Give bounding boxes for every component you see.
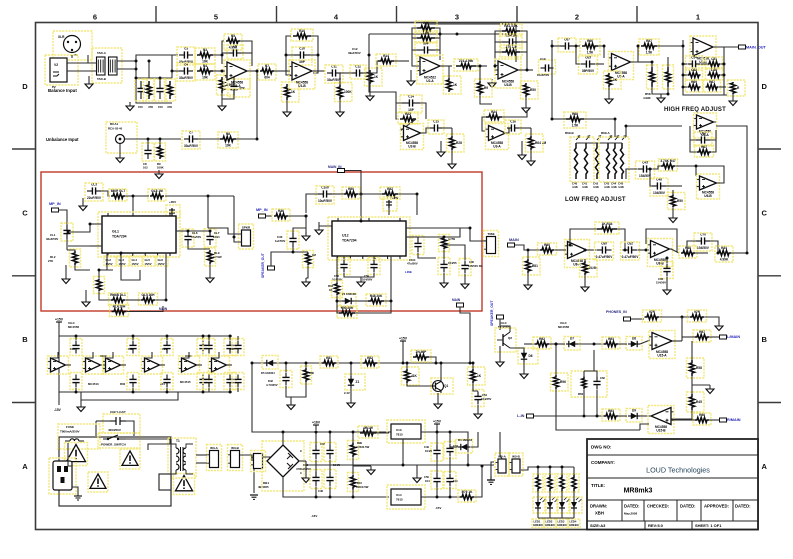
wire xyxy=(241,52,252,54)
ground xyxy=(663,286,671,295)
wire xyxy=(671,419,682,421)
wire xyxy=(172,70,179,72)
wire xyxy=(716,126,747,253)
wire xyxy=(671,249,679,253)
svg-text:R81: R81 xyxy=(532,264,538,268)
diode D16 xyxy=(626,409,642,423)
resistor R11 xyxy=(282,82,300,102)
wire (rail top) xyxy=(59,327,232,336)
node SPK1 xyxy=(268,266,275,270)
svg-text:LED3: LED3 xyxy=(558,520,565,524)
svg-text:C21: C21 xyxy=(162,347,167,351)
svg-text:HIGH FREQ ADJUST: HIGH FREQ ADJUST xyxy=(664,107,726,113)
wire xyxy=(440,141,442,148)
svg-text:R/MAIN: R/MAIN xyxy=(727,418,741,422)
wire xyxy=(638,249,649,251)
wire xyxy=(165,196,208,228)
wire xyxy=(701,63,707,65)
wire xyxy=(731,252,747,254)
svg-text:MC4515: MC4515 xyxy=(180,380,191,384)
wire xyxy=(368,34,370,70)
wire xyxy=(476,65,487,67)
ground xyxy=(434,400,442,409)
wire xyxy=(352,489,354,497)
svg-text:RCA-03-40: RCA-03-40 xyxy=(108,127,123,131)
ground xyxy=(581,283,589,292)
wire xyxy=(350,388,352,399)
node PHONES_IN label xyxy=(606,310,627,314)
svg-text:150: 150 xyxy=(158,105,163,109)
label C28 xyxy=(213,231,220,239)
svg-text:33uF/50V: 33uF/50V xyxy=(46,237,58,241)
wire xyxy=(166,336,168,340)
wire xyxy=(82,198,84,202)
svg-text:1: 1 xyxy=(696,13,700,22)
wire xyxy=(75,336,77,340)
wire xyxy=(182,352,189,358)
op-amp U6-B xyxy=(697,174,720,199)
junction dots xyxy=(292,193,472,303)
bridge rectifier DB1 xyxy=(258,441,304,491)
svg-text:R28: R28 xyxy=(456,141,462,145)
svg-text:47K: 47K xyxy=(167,105,172,109)
wire xyxy=(443,250,445,259)
svg-text:400/250V: 400/250V xyxy=(108,428,121,432)
wire xyxy=(171,55,173,78)
node SPEAKER_OUT vertical xyxy=(490,300,494,326)
earth ground xyxy=(250,495,258,499)
svg-text:4.99K: 4.99K xyxy=(720,258,729,262)
svg-text:104/50V: 104/50V xyxy=(653,191,666,195)
wire xyxy=(87,55,89,63)
transformer shield xyxy=(159,474,171,490)
diode D12 xyxy=(456,440,473,454)
wire xyxy=(638,61,652,63)
wire xyxy=(145,352,152,358)
svg-text:-15V: -15V xyxy=(435,506,441,510)
wire xyxy=(519,69,533,71)
label cap row values xyxy=(70,347,235,351)
wire xyxy=(345,171,361,222)
svg-text:C: C xyxy=(762,209,768,218)
wire xyxy=(336,256,338,283)
title block xyxy=(587,439,758,530)
svg-text:MC4558: MC4558 xyxy=(68,325,79,329)
wire xyxy=(524,343,535,345)
wire xyxy=(352,432,354,443)
wire xyxy=(650,169,652,186)
wire xyxy=(311,36,318,73)
connector W3-A xyxy=(207,445,222,471)
diode D11 xyxy=(262,356,278,370)
svg-text:SPKR: SPKR xyxy=(242,226,251,230)
resistor R30 xyxy=(205,248,216,266)
wire xyxy=(75,388,77,392)
resistor R29 xyxy=(148,189,166,201)
ground xyxy=(336,108,344,117)
fuse F1 xyxy=(58,424,100,449)
svg-text:4700uF/25V: 4700uF/25V xyxy=(296,467,311,471)
wire xyxy=(440,363,442,379)
resistor R44 xyxy=(439,235,450,252)
resistor R81 xyxy=(523,257,541,275)
svg-text:0.47uF/50V: 0.47uF/50V xyxy=(596,255,614,259)
wire xyxy=(209,264,211,274)
capacitor C13 xyxy=(415,42,437,57)
wire xyxy=(256,71,258,139)
ground xyxy=(461,280,469,289)
wire xyxy=(106,253,108,270)
ground xyxy=(518,151,526,160)
resistor R17 xyxy=(444,76,462,94)
label R43 xyxy=(312,253,317,257)
svg-text:REV:5.0: REV:5.0 xyxy=(648,523,664,528)
node R_OUT xyxy=(720,418,741,422)
wire xyxy=(472,363,474,369)
resistor R94 xyxy=(687,358,705,378)
wire xyxy=(523,362,525,370)
resistor R43 xyxy=(303,251,314,268)
capacitor C47b xyxy=(310,470,322,489)
svg-text:TITLE:: TITLE: xyxy=(591,483,605,488)
IC U14 (7915 regulator) xyxy=(387,485,425,509)
resistor R59 xyxy=(604,71,622,89)
svg-text:41K: 41K xyxy=(411,374,418,378)
svg-text:47K: 47K xyxy=(148,105,153,109)
wire xyxy=(666,185,682,187)
wire xyxy=(646,229,677,252)
resistor R32 xyxy=(109,293,128,305)
capacitor C45xb xyxy=(224,373,236,390)
svg-text:10K: 10K xyxy=(202,76,209,80)
svg-text:+15V: +15V xyxy=(399,337,408,341)
resistor R50 xyxy=(301,366,312,384)
svg-text:TAD-A: TAD-A xyxy=(97,51,107,55)
wire xyxy=(159,139,161,145)
wire (rail bottom) xyxy=(59,336,232,392)
svg-text:15/5V: 15/5V xyxy=(119,262,126,266)
wire xyxy=(402,346,404,363)
label U9-C xyxy=(68,321,79,329)
wire xyxy=(657,45,683,47)
label C53b xyxy=(453,479,458,483)
wire xyxy=(236,138,257,140)
wire xyxy=(491,462,494,476)
svg-text:39P/50V: 39P/50V xyxy=(582,69,595,73)
label Unbalance Input xyxy=(46,137,79,142)
svg-text:Z1 1N4148: Z1 1N4148 xyxy=(342,292,356,296)
svg-text:4.7/W: 4.7/W xyxy=(448,237,455,241)
svg-text:C19: C19 xyxy=(540,57,546,61)
wire xyxy=(482,117,486,131)
svg-text:CL6: CL6 xyxy=(192,231,198,235)
svg-text:104/25V: 104/25V xyxy=(481,397,492,401)
svg-text:DATED:: DATED: xyxy=(680,504,696,509)
resistor R95 xyxy=(693,330,711,342)
label R69-B xyxy=(565,131,611,135)
wire xyxy=(584,118,615,120)
wire xyxy=(538,517,574,519)
wire xyxy=(222,52,229,54)
warning symbol W2 xyxy=(88,472,108,492)
earth ground xyxy=(487,476,495,484)
wire xyxy=(640,340,650,344)
svg-text:C30: C30 xyxy=(277,235,283,239)
svg-text:2.2K/0.5W: 2.2K/0.5W xyxy=(356,445,370,449)
wire xyxy=(500,432,502,459)
resistor R68 xyxy=(564,112,586,128)
wire xyxy=(499,319,501,330)
svg-text:MP_IN: MP_IN xyxy=(49,202,61,206)
connector W5-A xyxy=(495,453,509,476)
ground xyxy=(527,157,535,166)
resistor R18 xyxy=(454,59,478,71)
wire xyxy=(237,336,239,340)
svg-text:Balance Input: Balance Input xyxy=(48,88,77,93)
capacitor C10 xyxy=(292,47,312,66)
label R46 xyxy=(328,284,334,292)
wire xyxy=(99,270,113,278)
capacitor C83 xyxy=(694,233,712,252)
wire xyxy=(250,70,257,72)
ground xyxy=(85,80,93,89)
ground xyxy=(448,160,456,169)
wire xyxy=(614,119,616,137)
wire xyxy=(477,405,479,410)
resistor R19 xyxy=(500,24,522,36)
capacitor C21 xyxy=(61,223,73,241)
capacitor C33 xyxy=(412,236,424,255)
capacitor C25 xyxy=(85,183,103,202)
wire xyxy=(313,70,325,72)
warning symbol W3 xyxy=(120,449,140,469)
wire xyxy=(126,299,140,301)
svg-text:+15V: +15V xyxy=(55,318,64,322)
svg-text:C97: C97 xyxy=(230,347,235,351)
svg-text:4B/4005: 4B/4005 xyxy=(258,485,269,489)
wire xyxy=(353,465,371,467)
svg-text:L/MAIN: L/MAIN xyxy=(727,335,740,339)
resistor R20 xyxy=(500,45,522,57)
wire xyxy=(68,443,72,466)
wire xyxy=(225,77,234,81)
wire xyxy=(551,40,553,119)
chassis enclosure xyxy=(59,437,171,506)
label HIGH FREQ ADJUST xyxy=(664,107,726,113)
ground xyxy=(715,322,723,331)
svg-text:104: 104 xyxy=(453,479,458,483)
wire xyxy=(692,384,710,386)
resistor R40 xyxy=(342,187,360,199)
resistor R22 xyxy=(398,112,418,124)
op-amp U8-B xyxy=(648,239,673,267)
wire xyxy=(449,457,451,473)
wire xyxy=(596,390,598,416)
switch SW1 (power) xyxy=(98,433,140,448)
wire xyxy=(696,166,724,183)
wire xyxy=(495,31,502,70)
svg-text:1K: 1K xyxy=(477,374,482,378)
node MAIN label xyxy=(452,298,461,302)
wire xyxy=(86,352,93,358)
wire xyxy=(402,439,404,465)
resistor R72 xyxy=(659,159,678,171)
wire xyxy=(117,68,136,70)
wire xyxy=(710,130,716,140)
resistor R58b xyxy=(458,490,476,502)
wire xyxy=(127,306,163,312)
wire xyxy=(651,62,653,68)
op-amp U8-A xyxy=(565,240,590,268)
highlight box (power amp section) xyxy=(41,172,482,311)
wire xyxy=(583,371,585,377)
svg-text:154/50V: 154/50V xyxy=(656,281,666,285)
capacitor C5 xyxy=(227,45,243,60)
label C52 xyxy=(453,444,458,448)
wire xyxy=(213,70,225,72)
resistor R60 xyxy=(663,65,674,89)
label U10 MC4558 xyxy=(180,354,192,384)
svg-text:47u/56V: 47u/56V xyxy=(407,262,418,266)
label C82 xyxy=(656,277,666,285)
label C33 xyxy=(407,258,418,266)
ground xyxy=(407,77,415,86)
svg-text:U12: U12 xyxy=(342,234,349,238)
wire xyxy=(437,393,439,400)
diode D20 xyxy=(340,294,356,308)
resistor R28 xyxy=(109,189,127,201)
svg-text:XLR: XLR xyxy=(58,35,65,39)
svg-text:MC4513: MC4513 xyxy=(88,382,99,386)
transistor Q1 xyxy=(431,378,453,394)
wire xyxy=(473,383,478,391)
wire xyxy=(690,140,696,152)
wire xyxy=(332,193,344,195)
svg-text:0.47uF/50V: 0.47uF/50V xyxy=(622,255,640,259)
node SPEAKER_OUT (left) xyxy=(261,253,265,278)
label C19 xyxy=(537,57,549,77)
svg-text:33uF/50V: 33uF/50V xyxy=(179,76,194,80)
wire xyxy=(584,371,597,377)
svg-text:1.5K: 1.5K xyxy=(587,51,594,55)
LED LED2 xyxy=(545,497,558,513)
wire xyxy=(202,388,204,392)
wire xyxy=(617,229,625,250)
svg-text:B: B xyxy=(22,335,28,344)
wire xyxy=(121,364,126,366)
wire xyxy=(421,496,460,498)
resistor R67 xyxy=(728,80,746,96)
wire xyxy=(341,72,352,74)
capacitor C52 xyxy=(444,442,456,459)
power -15V label xyxy=(311,506,441,518)
svg-text:U15-A: U15-A xyxy=(657,354,667,358)
svg-text:10uF/50V: 10uF/50V xyxy=(537,73,549,77)
connector W2 xyxy=(484,231,499,257)
svg-text:102: 102 xyxy=(143,166,148,170)
wire xyxy=(410,70,412,77)
wire xyxy=(166,388,168,392)
capacitor C51 xyxy=(431,471,443,489)
wire xyxy=(136,77,172,79)
wire xyxy=(212,352,219,358)
op-amp U15-A xyxy=(649,331,675,359)
wire xyxy=(271,252,293,266)
svg-text:LED2: LED2 xyxy=(546,520,553,524)
wire xyxy=(88,76,90,80)
wire xyxy=(263,457,270,461)
svg-text:10K/0.5W: 10K/0.5W xyxy=(356,485,369,489)
wire xyxy=(441,65,452,67)
wire xyxy=(384,256,391,301)
junction dots xyxy=(527,244,749,260)
wire xyxy=(66,239,68,250)
wire xyxy=(435,37,440,39)
label R27 xyxy=(48,255,56,263)
svg-text:-15V: -15V xyxy=(54,408,62,412)
svg-text:C: C xyxy=(22,209,28,218)
capacitor C68 xyxy=(579,56,598,75)
svg-text:104/56V: 104/56V xyxy=(362,278,373,282)
ground xyxy=(729,97,737,106)
wire xyxy=(176,230,188,232)
resistor R57b xyxy=(348,473,359,492)
wire xyxy=(343,256,345,259)
ground xyxy=(315,226,323,235)
wire xyxy=(682,336,695,338)
resistor R13 xyxy=(365,68,383,86)
capacitor C100 xyxy=(316,186,334,205)
resistor R63 xyxy=(706,68,723,80)
wire xyxy=(159,78,161,81)
wire xyxy=(578,343,604,345)
svg-text:C30: C30 xyxy=(469,260,474,264)
resistor R24 xyxy=(484,110,504,122)
op-amp U2-B xyxy=(401,124,424,150)
svg-text:R58: R58 xyxy=(696,366,702,370)
resistor R21 xyxy=(521,81,539,99)
wire xyxy=(588,249,596,251)
label C34 xyxy=(448,261,457,265)
IC U12 xyxy=(328,217,410,260)
wire xyxy=(329,432,331,445)
label C30 xyxy=(275,235,286,243)
svg-text:RL9: RL9 xyxy=(214,251,220,255)
wire xyxy=(160,364,165,366)
wire xyxy=(480,95,492,104)
capacitor C40b xyxy=(70,373,82,390)
wire xyxy=(640,415,649,417)
wire xyxy=(596,63,604,65)
ground xyxy=(520,370,528,379)
capacitor C28 xyxy=(204,229,216,247)
resistor R93 xyxy=(602,337,620,349)
label C35 xyxy=(468,260,482,268)
svg-text:Q2: Q2 xyxy=(508,336,512,340)
ground xyxy=(366,92,374,101)
resistor R97 xyxy=(602,409,620,421)
resistor R10 xyxy=(291,29,313,41)
wire xyxy=(653,166,660,169)
node MAIN_IN xyxy=(338,169,345,173)
transistor QM (mute) xyxy=(166,205,180,218)
capacitor C7 xyxy=(182,131,200,150)
svg-text:D4 1N4004: D4 1N4004 xyxy=(458,438,473,442)
capacitor C46x xyxy=(232,339,244,356)
wire xyxy=(449,487,451,497)
svg-text:100K: 100K xyxy=(157,166,164,170)
wire xyxy=(202,336,204,340)
